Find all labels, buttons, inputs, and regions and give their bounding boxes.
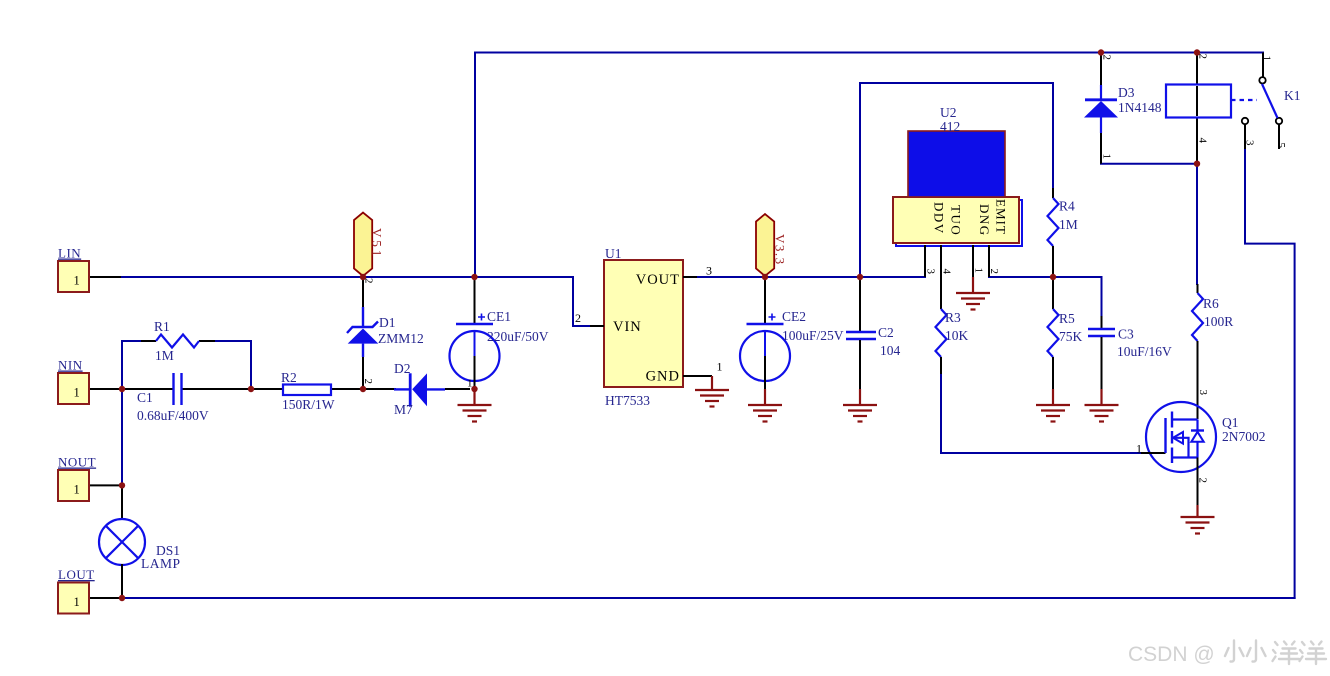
svg-text:1: 1 xyxy=(74,595,80,609)
svg-text:4: 4 xyxy=(941,269,953,275)
connector NIN xyxy=(58,358,89,405)
node relay coil junction xyxy=(1194,49,1200,55)
svg-text:D2: D2 xyxy=(394,361,411,376)
sensor module U2 412 xyxy=(893,105,1022,309)
svg-text:R1: R1 xyxy=(154,319,170,334)
svg-text:EMIT: EMIT xyxy=(994,199,1009,235)
svg-text:U2: U2 xyxy=(940,105,957,120)
pin LOUT xyxy=(89,597,121,599)
node R4/R5/TIME junction xyxy=(1050,274,1056,280)
svg-text:CE1: CE1 xyxy=(487,309,511,324)
lamp DS1 xyxy=(99,487,181,597)
capacitor C1 xyxy=(122,373,251,423)
svg-text:C1: C1 xyxy=(137,390,153,405)
svg-text:C2: C2 xyxy=(878,325,894,340)
svg-text:1: 1 xyxy=(74,386,80,400)
connector LIN xyxy=(58,246,89,293)
connector LOUT xyxy=(58,567,95,614)
svg-text:D1: D1 xyxy=(379,315,396,330)
svg-text:D3: D3 xyxy=(1118,85,1135,100)
svg-text:2: 2 xyxy=(575,311,581,325)
node NOUT junction xyxy=(119,482,125,488)
svg-text:V3.3: V3.3 xyxy=(773,234,788,266)
svg-text:2N7002: 2N7002 xyxy=(1222,429,1266,444)
wire LIN rail xyxy=(103,276,573,278)
resistor R1 xyxy=(141,319,215,363)
transistor Q1 2N7002 xyxy=(1136,402,1266,505)
wire NIN vertical to NOUT xyxy=(121,389,123,485)
ground at C3 xyxy=(1085,389,1119,422)
wire D3 bottom to relay pin4 xyxy=(1101,163,1197,165)
svg-text:R6: R6 xyxy=(1203,296,1219,311)
svg-text:NIN: NIN xyxy=(58,358,83,373)
svg-text:Q1: Q1 xyxy=(1222,415,1239,430)
ground at C2 xyxy=(843,389,877,422)
diode D3 1N4148 xyxy=(1084,53,1162,164)
svg-text:GND: GND xyxy=(646,369,680,385)
svg-text:CSDN @: CSDN @ xyxy=(1128,643,1215,666)
wire VOUT to 3.3V rail xyxy=(697,276,925,278)
svg-text:LIN: LIN xyxy=(58,246,81,261)
diode D2 M7 xyxy=(394,361,470,417)
svg-text:412: 412 xyxy=(940,119,960,134)
node CE1/top-wire junction xyxy=(471,274,477,280)
node D1/R2/D2 junction xyxy=(360,386,366,392)
wire TIME rail xyxy=(989,276,1102,278)
svg-text:2: 2 xyxy=(362,379,374,385)
svg-text:1M: 1M xyxy=(155,348,174,363)
capacitor C3 xyxy=(1088,316,1172,389)
wire D2 left xyxy=(363,388,395,390)
ground at Q1 source xyxy=(1181,505,1215,534)
svg-text:100uF/25V: 100uF/25V xyxy=(782,328,844,343)
ground at U1 GND xyxy=(695,376,729,407)
power symbol 15V (VSI) xyxy=(354,213,385,277)
svg-text:2: 2 xyxy=(988,269,1000,275)
svg-text:3: 3 xyxy=(1244,140,1256,146)
node VSI junction xyxy=(360,274,366,280)
wire top rail horizontal xyxy=(475,52,1263,54)
ground at CE2 xyxy=(748,389,782,422)
svg-text:VIN: VIN xyxy=(613,319,642,335)
svg-text:VOUT: VOUT xyxy=(636,272,680,288)
IC U1 HT7533 xyxy=(575,246,723,408)
svg-text:1: 1 xyxy=(74,274,80,288)
wire U2 loop left/top xyxy=(860,83,1053,277)
power symbol 3.3V xyxy=(756,214,788,276)
capacitor CE2 electrolytic xyxy=(740,277,844,389)
node C1/R1 junction xyxy=(248,386,254,392)
node D2/CE1/GND junction xyxy=(471,386,477,392)
pin NIN xyxy=(89,388,121,390)
node 3.3V junction xyxy=(762,274,768,280)
svg-text:M7: M7 xyxy=(394,402,413,417)
svg-text:ZMM12: ZMM12 xyxy=(378,331,424,346)
svg-text:0.68uF/400V: 0.68uF/400V xyxy=(137,408,209,423)
svg-text:C3: C3 xyxy=(1118,327,1134,342)
svg-text:150R/1W: 150R/1W xyxy=(282,397,335,412)
svg-text:4: 4 xyxy=(1197,138,1209,144)
ground at U2 GND xyxy=(956,277,990,310)
svg-text:1: 1 xyxy=(74,483,80,497)
wire R1 right to C1 junction xyxy=(214,341,251,389)
wire R3 to Q1 gate xyxy=(941,373,1141,453)
node LOUT junction xyxy=(119,595,125,601)
node C2 junction xyxy=(857,274,863,280)
wire K1 pin3 down right down xyxy=(1245,148,1295,598)
svg-text:2: 2 xyxy=(1197,478,1209,484)
svg-text:1: 1 xyxy=(973,268,985,274)
svg-text:R2: R2 xyxy=(281,370,297,385)
svg-text:3: 3 xyxy=(925,269,937,275)
resistor R6 xyxy=(1192,284,1233,419)
svg-text:1: 1 xyxy=(1261,56,1273,62)
resistor R4 xyxy=(1048,188,1078,277)
svg-text:DNG: DNG xyxy=(977,204,992,237)
watermark CSDN xyxy=(1128,641,1326,667)
node D3 top junction xyxy=(1098,49,1104,55)
pin NOUT xyxy=(89,484,121,486)
svg-text:U1: U1 xyxy=(605,246,622,261)
diode D1 ZMM12 (zener) xyxy=(347,277,424,389)
svg-text:CE2: CE2 xyxy=(782,309,806,324)
ground at R5 xyxy=(1036,389,1070,422)
svg-text:1: 1 xyxy=(717,360,723,374)
svg-text:10K: 10K xyxy=(945,328,969,343)
svg-text:100R: 100R xyxy=(1204,314,1233,329)
relay K1 xyxy=(1166,53,1301,164)
wire top rail vertical xyxy=(474,53,476,278)
wire relay junction down to R6 xyxy=(1196,164,1198,284)
svg-text:TUO: TUO xyxy=(949,205,964,236)
svg-text:K1: K1 xyxy=(1284,88,1301,103)
svg-text:R5: R5 xyxy=(1059,311,1075,326)
svg-text:V51: V51 xyxy=(370,228,385,259)
svg-text:HT7533: HT7533 xyxy=(605,393,650,408)
svg-text:R4: R4 xyxy=(1059,199,1075,214)
pin number digits (rotated) xyxy=(362,54,1287,484)
resistor R2 xyxy=(251,370,363,412)
wire bottom rail xyxy=(122,597,1295,599)
svg-text:1M: 1M xyxy=(1059,217,1078,232)
pin LIN xyxy=(89,276,120,278)
svg-text:DDV: DDV xyxy=(932,202,947,235)
svg-text:75K: 75K xyxy=(1059,329,1083,344)
wire R1 branch xyxy=(122,341,141,389)
svg-text:220uF/50V: 220uF/50V xyxy=(487,329,549,344)
wire LIN to VIN bend xyxy=(573,277,591,326)
svg-text:10uF/16V: 10uF/16V xyxy=(1117,344,1172,359)
svg-text:1: 1 xyxy=(1101,154,1113,160)
svg-text:R3: R3 xyxy=(945,310,961,325)
connector NOUT xyxy=(58,455,96,502)
wire C3 drop xyxy=(1101,277,1103,316)
svg-text:104: 104 xyxy=(880,343,901,358)
svg-text:1N4148: 1N4148 xyxy=(1118,100,1162,115)
svg-text:3: 3 xyxy=(1197,390,1209,396)
svg-text:5: 5 xyxy=(1275,143,1287,149)
capacitor C2 xyxy=(846,277,901,389)
svg-text:LAMP: LAMP xyxy=(141,556,181,571)
svg-text:1: 1 xyxy=(1136,442,1142,456)
node NIN junction xyxy=(119,386,125,392)
resistor R3 xyxy=(936,303,969,375)
resistor R5 xyxy=(1048,277,1083,389)
capacitor CE1 electrolytic xyxy=(450,277,549,389)
svg-text:LOUT: LOUT xyxy=(58,567,95,582)
svg-text:NOUT: NOUT xyxy=(58,455,96,470)
svg-text:3: 3 xyxy=(706,264,712,278)
node D3/coil4/R6 junction xyxy=(1194,161,1200,167)
ground at CE1/D2 node xyxy=(458,389,492,422)
